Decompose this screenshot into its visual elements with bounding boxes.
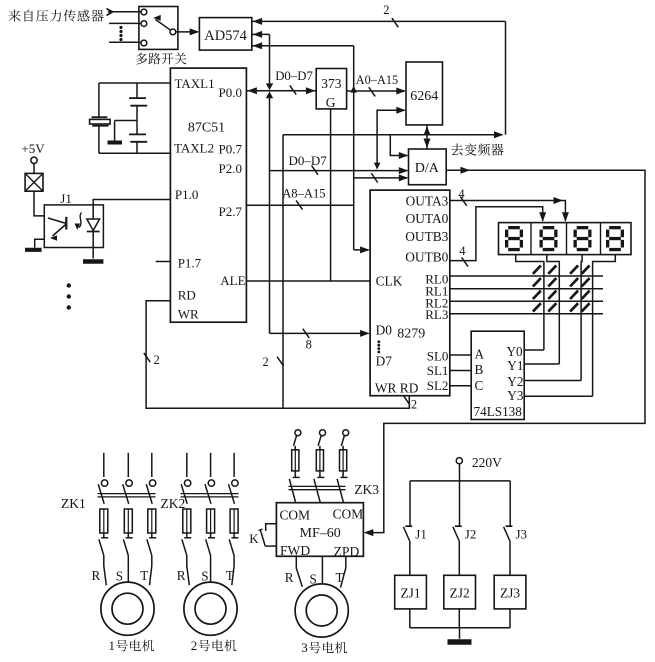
wire Y1	[524, 363, 559, 365]
wire fuse to contact	[233, 533, 235, 538]
wire SL0 to A	[450, 354, 471, 356]
ZK2 switch blade	[229, 484, 235, 504]
svg-text:OUTB0: OUTB0	[405, 249, 448, 264]
wire switch to relay ZJ1	[409, 541, 411, 575]
ZK3 lower contact blade	[314, 479, 320, 503]
ZK2 lower contact blade	[206, 539, 211, 556]
ellipsis dots more channels	[119, 26, 122, 29]
wire 6264 second input from data bus	[377, 110, 405, 167]
svg-text:SL1: SL1	[427, 363, 449, 378]
OUTA3 segment bus to display	[450, 201, 566, 222]
wire lamp to optocoupler	[34, 191, 44, 216]
wire sensor input 3	[109, 41, 141, 43]
svg-text:A0–A15: A0–A15	[356, 73, 398, 87]
fuse below ZK1	[148, 509, 156, 533]
svg-text:MF–60: MF–60	[300, 526, 341, 541]
svg-text:R: R	[285, 570, 294, 585]
wire relay ZJ2 to ground bus	[458, 609, 460, 628]
wire fuse to contact	[319, 471, 321, 477]
ZK2 switch blade	[181, 484, 187, 504]
key matrix switches	[533, 265, 541, 273]
display digit 3	[577, 226, 589, 229]
slash 2 at 8279 WR RD	[404, 396, 410, 405]
MCU U1 87C51	[170, 68, 246, 322]
wire fuse to contact	[186, 533, 188, 538]
wire A8-A15 to 8279	[354, 249, 369, 251]
dots between D0 and D7	[377, 340, 380, 343]
wire blade to fuse	[294, 446, 296, 450]
wire Y3	[524, 395, 592, 397]
wire P1.7 stub	[156, 261, 171, 263]
svg-text:ALE: ALE	[220, 273, 245, 288]
wire blade to fuse	[342, 446, 344, 450]
multiplexer box 多路开关	[139, 7, 178, 50]
ZK3 input terminal	[343, 430, 349, 436]
wire sensor input 2	[109, 22, 141, 24]
svg-text:ZK3: ZK3	[354, 482, 379, 497]
ZK1 switch blade	[123, 484, 129, 504]
8-bit data bus into 8279 D0	[270, 332, 369, 334]
svg-text:RL3: RL3	[425, 307, 448, 322]
svg-text:6264: 6264	[410, 89, 438, 104]
wire mux output to AD574	[176, 31, 198, 33]
optocoupler J1 box	[44, 205, 103, 248]
ZK1 switch blade	[146, 484, 152, 504]
wire 373 G to ALE	[330, 109, 332, 281]
capacitor C2	[136, 106, 138, 135]
digit select line 4	[593, 255, 616, 397]
svg-text:C: C	[475, 378, 484, 393]
chevron arrow after sensor label	[107, 9, 113, 16]
svg-text:SL2: SL2	[427, 378, 449, 393]
svg-text:8: 8	[306, 337, 312, 351]
fuse ZK3	[340, 450, 347, 471]
svg-text:B: B	[475, 362, 484, 377]
wire P0-bus down to D0-D7 / 8279	[269, 96, 271, 333]
A0-A15 bus 373 to 6264	[347, 90, 405, 92]
ZK1 lower contact blade	[123, 539, 128, 556]
capacitor C1	[136, 83, 138, 98]
svg-text:ZJ3: ZJ3	[500, 586, 520, 601]
bus slash top 2	[392, 18, 398, 27]
wire fuse to contact	[210, 533, 212, 538]
opto LED element	[48, 218, 66, 224]
svg-text:P0.0: P0.0	[219, 85, 242, 100]
svg-text:G: G	[326, 95, 336, 110]
mux input contact 2	[141, 21, 147, 27]
ZK3 lower contact blade	[289, 479, 295, 503]
ZK2 lower contact blade	[229, 539, 234, 556]
RD/WR bus to AD574 horizontal	[283, 134, 503, 136]
switch J2 fixed contact	[455, 525, 462, 527]
wire relay ZJ1 to ground bus	[409, 609, 411, 628]
motor M1 1号电机	[101, 582, 154, 635]
display digit 4	[609, 226, 621, 229]
wire XTAL1	[99, 82, 170, 84]
svg-text:J1: J1	[60, 191, 72, 206]
fuse below ZK2	[230, 509, 238, 533]
fuse ZK3	[292, 450, 299, 471]
svg-text:A8–A15: A8–A15	[282, 186, 325, 200]
svg-text:P1.7: P1.7	[178, 256, 202, 271]
ZK2 phase wire	[233, 453, 235, 477]
svg-text:S: S	[116, 569, 123, 584]
wire P1.0 to optocoupler	[93, 200, 170, 205]
wire AD574 branch vertical x354	[353, 46, 355, 250]
mux common contact	[170, 29, 176, 35]
svg-text:SL0: SL0	[427, 349, 449, 364]
svg-text:S: S	[201, 569, 208, 584]
wire D/A chip-select from RD/WR bus	[390, 135, 407, 156]
opto photodiode	[92, 205, 94, 219]
relay coil ZJ3	[494, 575, 526, 609]
ellipsis dots more opto channels	[67, 283, 71, 287]
digit select line 3	[581, 255, 582, 381]
svg-text:2: 2	[154, 353, 160, 367]
mechanical linkage ZK3	[289, 485, 346, 487]
wire AD574-data vertical	[269, 34, 271, 84]
svg-text:OUTB3: OUTB3	[405, 229, 448, 244]
ZK1 phase wire	[151, 453, 153, 477]
RAM U4 6264	[406, 62, 443, 125]
RL0 return line	[450, 275, 603, 277]
wire to motor	[341, 556, 346, 587]
ZK1 switch blade	[98, 484, 104, 504]
wire Y0	[524, 349, 544, 351]
digit select line 1	[516, 255, 544, 350]
switch J3 fixed contact	[506, 525, 513, 527]
digit select line 2	[547, 255, 560, 364]
ZK2 phase wire	[186, 453, 188, 477]
display digit 2	[543, 226, 555, 229]
wire SL1 to B	[450, 370, 471, 372]
wire to motor	[321, 556, 323, 584]
svg-text:CLK: CLK	[376, 273, 403, 288]
wire to ground	[459, 628, 461, 639]
svg-text:R: R	[92, 568, 101, 583]
svg-text:RD: RD	[178, 287, 196, 302]
svg-text:FWD: FWD	[280, 543, 310, 558]
ground for caps	[115, 120, 137, 122]
fuse below ZK2	[183, 509, 191, 533]
wire control bus branch up to AD574	[282, 135, 284, 409]
wire to motor	[296, 556, 302, 587]
wire to motor	[210, 556, 212, 582]
wire fuse to contact	[151, 533, 153, 538]
wire 2-bus top corner vertical	[505, 21, 507, 134]
ground return bus	[410, 627, 510, 629]
RL1 return line	[450, 288, 603, 290]
ZK3 input terminal	[295, 430, 301, 436]
wire fuse to contact	[103, 533, 105, 538]
decoder U7 74LS138	[471, 331, 524, 419]
svg-text:2: 2	[383, 3, 389, 17]
ZK2 contact terminal	[184, 480, 190, 486]
ZK3 switch blade	[341, 436, 344, 446]
220V distribution bus	[410, 480, 510, 482]
svg-text:D0: D0	[376, 323, 393, 338]
svg-text:D/A: D/A	[415, 161, 440, 176]
fuse below ZK1	[124, 509, 132, 533]
wire to motor	[104, 556, 107, 585]
wire Y2	[524, 380, 581, 382]
ZK2 contact terminal	[208, 480, 214, 486]
wire to motor	[232, 556, 234, 585]
label 来自压力传感器 (from pressure sensor)	[8, 10, 20, 22]
ZK2 lower contact blade	[182, 539, 187, 556]
svg-text:A: A	[475, 347, 485, 362]
ZK1 contact terminal	[149, 480, 155, 486]
wire D/A third input	[354, 177, 408, 179]
display digit 1	[508, 226, 520, 229]
svg-text:P1.0: P1.0	[175, 187, 198, 202]
svg-text:Y3: Y3	[507, 388, 524, 403]
switch J3 blade	[504, 527, 510, 541]
wire SL2 to C	[450, 385, 471, 387]
wire drop to switch J3	[509, 481, 511, 526]
svg-text:D0–D7: D0–D7	[289, 153, 328, 168]
relay coil ZJ2	[444, 575, 476, 609]
ZK3 lower contact blade	[337, 479, 343, 503]
svg-text:ZJ2: ZJ2	[450, 586, 470, 601]
svg-text:T: T	[226, 568, 234, 583]
wire AD574 data input (to P0 bus)	[252, 33, 270, 35]
7-segment display module	[499, 223, 632, 255]
DAC U5 D/A	[409, 149, 447, 185]
svg-text:J3: J3	[516, 526, 528, 541]
ZK2 switch blade	[205, 484, 211, 504]
wire blade to fuse	[319, 446, 321, 450]
svg-text:TAXL1: TAXL1	[175, 76, 215, 91]
svg-text:373: 373	[321, 76, 342, 91]
ZK1 phase wire	[103, 453, 105, 477]
latch U3 373	[316, 69, 346, 109]
RL2 return line	[450, 300, 603, 302]
svg-text:OUTA0: OUTA0	[406, 211, 449, 226]
svg-text:Y2: Y2	[507, 374, 523, 389]
label 多路开关	[136, 53, 147, 65]
svg-text:COM: COM	[280, 508, 311, 523]
relay coil ZJ1	[395, 575, 427, 609]
svg-text:2: 2	[263, 355, 269, 369]
P0.0 data bus 87C51 to 373	[246, 90, 316, 92]
motor M2 2号电机	[184, 582, 237, 635]
fuse below ZK2	[207, 509, 215, 533]
svg-text:74LS138: 74LS138	[474, 404, 523, 419]
mux input contact 1	[141, 9, 147, 15]
svg-text:+5V: +5V	[21, 141, 45, 156]
ZK2 contact terminal	[232, 480, 238, 486]
ground symbol	[448, 639, 472, 645]
svg-text:8279: 8279	[397, 326, 425, 341]
ZK1 lower contact blade	[147, 539, 152, 556]
bidirectional bus 6264 to D/A	[426, 125, 428, 149]
wire switch to relay ZJ2	[458, 541, 460, 575]
light arrow	[79, 213, 82, 228]
ZK1 contact terminal	[126, 480, 132, 486]
bus junction arrows at P0 bus	[266, 83, 273, 90]
svg-text:T: T	[140, 568, 148, 583]
svg-text:T: T	[336, 570, 344, 585]
svg-text:P2.0: P2.0	[219, 161, 242, 176]
wire to motor	[150, 556, 152, 585]
svg-text:220V: 220V	[472, 455, 502, 470]
wire fuse to contact	[294, 471, 296, 477]
wire to motor	[187, 556, 190, 585]
svg-text:P2.7: P2.7	[219, 204, 243, 219]
svg-text:ZJ1: ZJ1	[400, 586, 420, 601]
svg-text:2: 2	[191, 638, 198, 653]
svg-text:Y1: Y1	[507, 358, 523, 373]
inverter MF-60	[276, 503, 363, 557]
fuse ZK3	[316, 450, 323, 471]
motor M3 3号电机	[295, 584, 348, 637]
wire AD574 control input top (2-bus from WR/RD)	[252, 20, 506, 22]
svg-text:WR: WR	[178, 307, 199, 322]
svg-text:TAXL2: TAXL2	[174, 140, 214, 155]
wire D/A output to inverter loop	[365, 170, 645, 532]
wire RD/WR from 87C51	[146, 301, 409, 409]
wire +5V to lamp	[33, 164, 35, 174]
wire to motor	[127, 556, 129, 582]
svg-text:J1: J1	[415, 526, 427, 541]
ZK3 switch blade	[294, 436, 297, 446]
svg-text:2: 2	[411, 397, 417, 411]
ZK1 lower contact blade	[99, 539, 104, 556]
label 去变频器 (to inverter)	[451, 144, 463, 156]
svg-text:ZK1: ZK1	[61, 496, 86, 511]
wire fuse to contact	[127, 533, 129, 538]
ZK3 input terminal	[320, 430, 326, 436]
svg-text:S: S	[310, 572, 317, 587]
ZK3 switch blade	[318, 436, 321, 446]
wire switch to relay ZJ3	[509, 541, 511, 575]
svg-text:K: K	[249, 531, 259, 546]
ground opto left	[35, 239, 45, 247]
svg-text:87C51: 87C51	[188, 121, 225, 136]
ground opto right	[83, 259, 103, 264]
switch J1 blade	[403, 527, 409, 541]
mux switch arm	[156, 20, 171, 31]
svg-text:AD574: AD574	[204, 28, 247, 44]
indicator lamp (box with X)	[25, 173, 43, 191]
wire fuse to contact	[342, 471, 344, 477]
switch J1 fixed contact	[405, 525, 412, 527]
wire drop to switch J1	[409, 481, 411, 526]
svg-text:R: R	[177, 568, 186, 583]
wire XTAL2	[99, 152, 170, 154]
ZK1 phase wire	[127, 453, 129, 477]
svg-text:COM: COM	[333, 507, 364, 522]
wire relay ZJ3 to ground bus	[509, 609, 511, 628]
crystal Y1	[98, 83, 100, 117]
svg-text:D7: D7	[376, 354, 393, 369]
svg-text:3: 3	[301, 640, 308, 655]
svg-text:J2: J2	[465, 526, 477, 541]
fuse below ZK1	[100, 509, 108, 533]
keyboard/display controller U6 8279	[370, 190, 450, 396]
svg-text:OUTA3: OUTA3	[406, 194, 449, 209]
mux input contact 3	[141, 40, 147, 46]
mechanical linkage ZK2	[181, 493, 239, 495]
slash 2 on RD/WR drop	[144, 353, 150, 362]
wire AD574 input from A0-A15	[252, 45, 354, 47]
wire drop to switch J2	[459, 481, 461, 526]
ZK2 phase wire	[210, 453, 212, 477]
RL3 return line	[450, 313, 603, 315]
ZK1 contact terminal	[101, 480, 107, 486]
wire sensor input 1	[108, 11, 141, 13]
mechanical linkage ZK1	[98, 493, 156, 495]
svg-text:Y0: Y0	[507, 344, 524, 359]
ADC U2 AD574	[199, 18, 251, 51]
svg-text:D0–D7: D0–D7	[275, 69, 313, 83]
svg-text:ZK2: ZK2	[161, 496, 186, 511]
OUTB0 segment bus to display	[450, 207, 543, 261]
svg-text:WR RD: WR RD	[375, 381, 419, 396]
switch J2 blade	[453, 527, 459, 541]
svg-text:1: 1	[109, 638, 116, 653]
wire ALE to 8279 CLK	[246, 280, 370, 282]
wire 220V down	[459, 464, 461, 481]
A8-A15 bus from P2.7	[246, 204, 353, 206]
220V supply terminal	[456, 458, 462, 464]
svg-text:P0.7: P0.7	[219, 141, 243, 156]
svg-text:4: 4	[459, 244, 466, 258]
